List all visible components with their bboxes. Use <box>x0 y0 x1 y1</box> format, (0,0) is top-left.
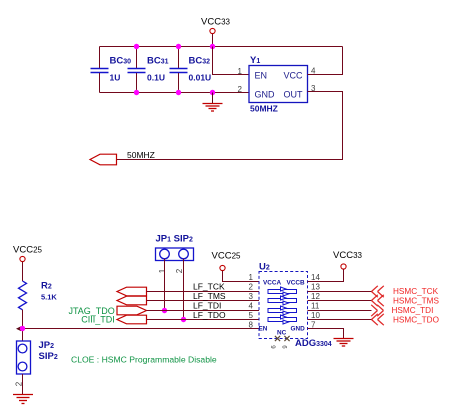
svg-text:5: 5 <box>249 311 254 320</box>
wire LF_TCK <box>147 291 260 293</box>
wire R2 to junction <box>22 310 24 341</box>
junction top rail at VCC33 drop <box>210 44 215 49</box>
junction top rail at BC31 <box>134 44 139 49</box>
svg-text:1U: 1U <box>110 73 121 83</box>
svg-text:2: 2 <box>175 268 184 273</box>
wire LF_TMS <box>147 300 260 302</box>
svg-text:HSMC_TDO: HSMC_TDO <box>393 316 439 325</box>
power symbol VCC33 circle (U2) <box>341 264 346 269</box>
power symbol VCC25 circle <box>20 256 25 261</box>
capacitor BC32 <box>170 47 188 93</box>
wire bottom GND rail <box>100 92 250 94</box>
svg-text:50MHZ: 50MHZ <box>250 104 278 114</box>
junction bottom rail at BC32 <box>176 90 181 95</box>
svg-text:CIII_TDI: CIII_TDI <box>81 315 115 325</box>
svg-text:50MHZ: 50MHZ <box>127 150 155 160</box>
svg-text:12: 12 <box>311 292 320 301</box>
svg-text:EN: EN <box>255 71 268 81</box>
IC U2 dashed box <box>259 272 308 339</box>
wire VCC33 rail to Y1 EN pin 1 <box>213 47 250 75</box>
svg-text:HSMC_TCK: HSMC_TCK <box>393 287 439 296</box>
ground symbol (JP2) <box>13 395 33 404</box>
port arrow LF_TDO (left) <box>117 315 147 324</box>
wire HSMC_TCK <box>308 291 372 293</box>
power symbol VCC25 circle (U2) <box>220 265 225 270</box>
no-connect X pin9 <box>284 336 289 341</box>
svg-text:LF_TDO: LF_TDO <box>193 310 226 320</box>
ground symbol (top GND rail) <box>203 93 223 112</box>
svg-text:2: 2 <box>238 85 243 94</box>
svg-text:1: 1 <box>238 67 243 76</box>
capacitor BC30 <box>91 47 109 93</box>
svg-text:HSMC_TDI: HSMC_TDI <box>392 306 434 315</box>
junction EN net at R2/JP2 <box>20 326 25 331</box>
junction LF_TDI at JP1 pin1 <box>162 308 167 313</box>
svg-text:LF_TDI: LF_TDI <box>193 301 221 311</box>
wire Y1 pin4 VCC to top rail <box>308 47 343 75</box>
wire HSMC_TDI <box>308 310 372 312</box>
svg-text:5.1K: 5.1K <box>41 293 57 302</box>
wire LF_TDO <box>147 319 260 321</box>
wire LF_TDI <box>147 310 260 312</box>
wire VCC33 stub <box>212 34 214 47</box>
wire VCC33 to U2 pin14 <box>308 269 344 281</box>
junction bottom rail at BC31 <box>134 90 139 95</box>
svg-text:VCC25: VCC25 <box>13 245 43 256</box>
wire JP1 pin2 to LF_TDO <box>183 259 185 320</box>
offpage chevron HSMC_TCK <box>372 286 384 297</box>
no-connect X pin6 <box>275 336 280 341</box>
offpage chevron HSMC_TMS <box>372 295 384 306</box>
connector JP2 <box>17 341 31 374</box>
svg-text:13: 13 <box>311 283 320 292</box>
level shifter ch3 <box>268 306 297 315</box>
svg-text:VCC25: VCC25 <box>212 251 242 262</box>
wire JP1 pin1 to LF_TDI <box>164 259 166 311</box>
level shifter ch2 <box>268 296 297 305</box>
junction top rail at BC32 <box>176 44 181 49</box>
svg-text:10: 10 <box>311 311 320 320</box>
svg-text:14: 14 <box>311 273 320 282</box>
svg-text:CLOE : HSMC Programmable Disab: CLOE : HSMC Programmable Disable <box>71 355 217 365</box>
svg-text:4: 4 <box>249 302 254 311</box>
svg-text:LF_TCK: LF_TCK <box>193 282 225 292</box>
resistor R2 <box>19 281 27 310</box>
connector JP1 <box>156 248 194 261</box>
power symbol VCC33 circle <box>210 28 215 33</box>
offpage chevron HSMC_TDI (right) <box>371 305 383 316</box>
svg-text:OUT: OUT <box>284 90 304 100</box>
svg-text:VCCA: VCCA <box>263 280 281 287</box>
port arrow LF_TMS (left) <box>117 296 147 305</box>
svg-text:11: 11 <box>311 302 320 311</box>
svg-text:3: 3 <box>249 292 254 301</box>
capacitor BC31 <box>128 47 146 93</box>
wire top rail <box>100 46 343 48</box>
svg-text:0.1U: 0.1U <box>147 73 165 83</box>
svg-text:HSMC_TMS: HSMC_TMS <box>393 297 439 306</box>
svg-text:JP1 SIP2: JP1 SIP2 <box>156 234 193 245</box>
svg-text:1: 1 <box>158 268 167 273</box>
wire HSMC_TMS <box>308 300 372 302</box>
wire JP2 to ground <box>22 374 24 394</box>
svg-text:VCCB: VCCB <box>287 280 305 287</box>
svg-text:GND: GND <box>255 90 276 100</box>
svg-text:1: 1 <box>249 273 254 282</box>
oscillator Y1 box <box>249 66 308 103</box>
svg-text:0.01U: 0.01U <box>189 73 212 83</box>
wire end arrowhead <box>16 326 21 331</box>
svg-text:8: 8 <box>249 321 254 330</box>
svg-text:LF_TMS: LF_TMS <box>193 291 226 301</box>
port arrow 50MHZ <box>90 154 117 165</box>
wire HSMC_TDO <box>308 319 372 321</box>
wire VCC25 to U2 pin1 <box>223 271 260 282</box>
level shifter ch4 <box>268 315 297 324</box>
svg-text:GND: GND <box>291 326 306 333</box>
svg-text:VCC33: VCC33 <box>333 250 363 261</box>
svg-text:2: 2 <box>249 283 254 292</box>
svg-text:VCC: VCC <box>283 71 303 81</box>
svg-text:VCC33: VCC33 <box>201 17 231 28</box>
wire VCC25 to R2 <box>22 262 24 281</box>
port arrow JTAG_TDO (right-pointing) <box>117 306 147 315</box>
port arrow LF_TCK (left) <box>117 287 147 296</box>
svg-text:EN: EN <box>259 326 268 333</box>
svg-text:NC: NC <box>277 330 287 337</box>
wire U2 pin7 to ground <box>308 329 344 339</box>
offpage chevron HSMC_TDO <box>372 314 384 325</box>
junction bottom rail at ground drop <box>210 90 215 95</box>
level shifter ch1 <box>268 287 297 296</box>
wire EN net horizontal <box>23 328 260 330</box>
ground symbol (U2 pin7) <box>334 339 354 347</box>
junction LF_TDO at JP1 pin2 <box>181 317 186 322</box>
wire Y1 pin3 OUT to 50MHZ port <box>117 92 343 160</box>
